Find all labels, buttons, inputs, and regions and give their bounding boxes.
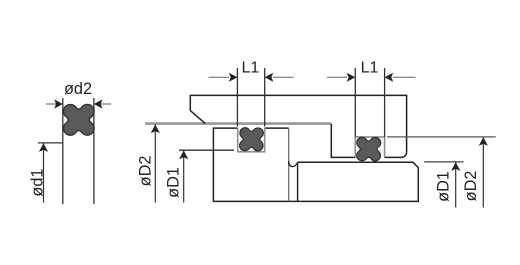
svg-text:øD1: øD1: [164, 167, 182, 198]
svg-text:øD2: øD2: [462, 171, 480, 202]
svg-text:L1: L1: [361, 60, 379, 77]
svg-text:L1: L1: [242, 60, 260, 77]
svg-text:øD2: øD2: [136, 156, 154, 187]
svg-text:ød2: ød2: [64, 80, 92, 98]
svg-text:øD1: øD1: [434, 171, 452, 202]
svg-text:ød1: ød1: [28, 169, 46, 197]
